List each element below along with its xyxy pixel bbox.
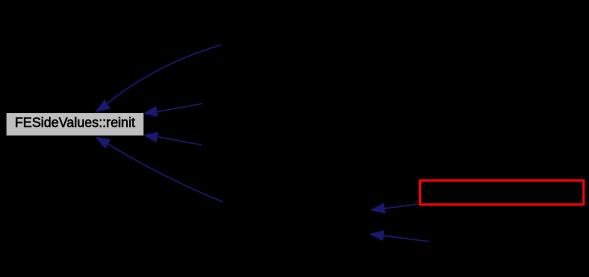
svg-text:FESideValues::reinit: FESideValues::reinit xyxy=(15,115,136,130)
wire: edge E1 curve from top caller node to FESideValues::reinit xyxy=(94,45,221,115)
wire: edge E4 curve from bottom caller node to FESideValues::reinit xyxy=(94,134,223,202)
wire: edge E5 from red highlighted node to bottom caller node xyxy=(371,203,419,214)
node: red highlighted caller node (label invisible on transparent background) xyxy=(420,181,584,205)
node FESideValues::reinit (current node, gray) xyxy=(6,113,144,137)
wire: edge E3 straight from middle caller node to FESideValues::reinit (lower right) xyxy=(144,130,202,145)
wire: edge E6 from bottom-right caller node to bottom caller node xyxy=(370,229,430,241)
wire: edge E2 straight from middle caller node to FESideValues::reinit (upper right) xyxy=(143,104,202,119)
